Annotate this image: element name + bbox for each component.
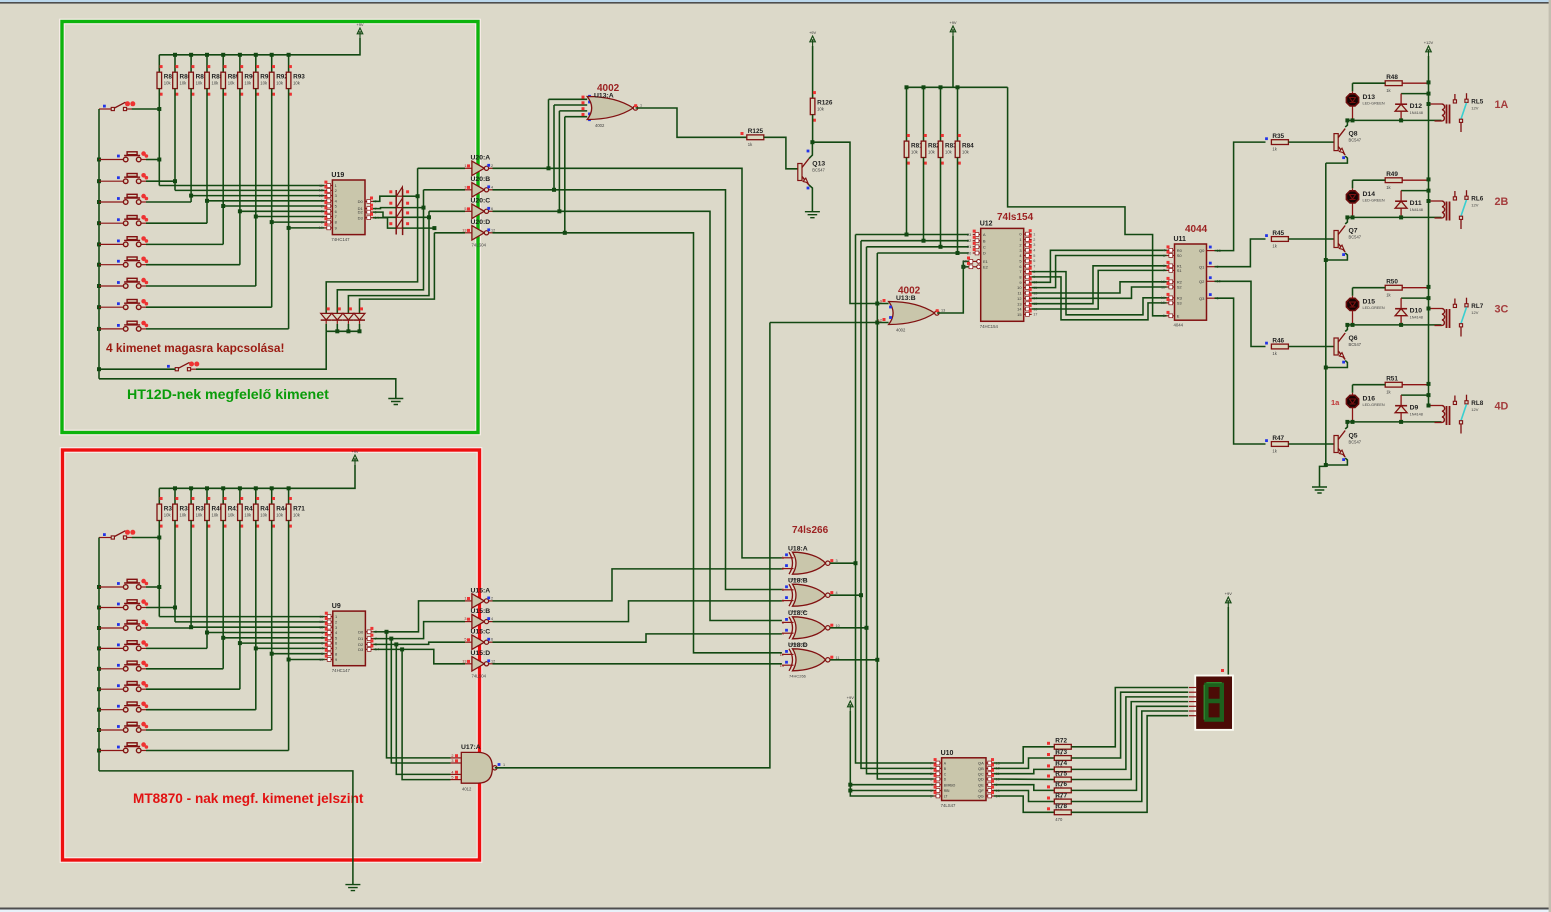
wire node row bbox=[1347, 324, 1441, 326]
svg-text:S0: S0 bbox=[1177, 253, 1183, 258]
junction bbox=[97, 646, 101, 650]
svg-text:6: 6 bbox=[1019, 264, 1021, 269]
wire to display pin bbox=[1071, 716, 1188, 813]
junction bbox=[552, 188, 556, 192]
wire U13:B out to U12 E1 bbox=[937, 261, 969, 313]
power +9V (R81 rail) bbox=[950, 26, 956, 36]
button SW5 (green box row 5) bbox=[99, 236, 148, 247]
resistor R46 bbox=[1271, 344, 1288, 349]
wire resistor top lead bbox=[906, 87, 908, 141]
wire resistor column bbox=[222, 521, 224, 669]
diode (lower group) bbox=[354, 313, 365, 320]
wire Q13 emitter bbox=[809, 185, 812, 212]
svg-text:A: A bbox=[983, 232, 986, 237]
svg-text:1N4148: 1N4148 bbox=[1410, 208, 1423, 212]
junction bbox=[854, 561, 858, 565]
wire resistor column bbox=[158, 89, 160, 186]
wire resistor top lead bbox=[271, 488, 273, 504]
wire to U19 pin bbox=[159, 185, 324, 187]
svg-text:U20:D: U20:D bbox=[471, 219, 491, 226]
svg-text:D2: D2 bbox=[358, 210, 364, 215]
wire U18 input stub bbox=[782, 557, 794, 559]
wire diode out bbox=[403, 216, 429, 218]
wire Q13 node to U13:B in1 bbox=[812, 142, 888, 303]
wire U13:A input bbox=[565, 116, 587, 118]
wire to display pin bbox=[1071, 702, 1188, 780]
svg-text:RL8: RL8 bbox=[1471, 400, 1483, 407]
resistor R92 bbox=[269, 72, 274, 88]
wire LED top bbox=[1352, 180, 1354, 188]
svg-text:11: 11 bbox=[1017, 291, 1021, 296]
svg-text:U9: U9 bbox=[332, 603, 341, 610]
svg-text:LED-GREEN: LED-GREEN bbox=[1363, 198, 1385, 202]
wire resistor top lead bbox=[923, 87, 925, 141]
svg-text:4044: 4044 bbox=[1185, 224, 1208, 235]
svg-text:R74: R74 bbox=[1055, 760, 1067, 767]
button SW17 (red box row 8) bbox=[99, 722, 148, 733]
wire resistor column bbox=[174, 521, 176, 622]
button SW16 (red box row 7) bbox=[99, 702, 148, 713]
junction pin row bbox=[221, 636, 225, 640]
svg-text:5: 5 bbox=[464, 207, 466, 211]
svg-text:4: 4 bbox=[451, 770, 453, 774]
junction rail bbox=[1427, 296, 1431, 300]
wire to inverter input bbox=[434, 232, 465, 234]
button SW11 (red box row 2) bbox=[99, 599, 148, 610]
wire resistor top lead bbox=[288, 55, 290, 72]
junction bbox=[97, 367, 101, 371]
svg-text:74HC147: 74HC147 bbox=[331, 237, 350, 242]
button SW3 (green box row 3) bbox=[99, 194, 148, 205]
svg-text:5: 5 bbox=[464, 638, 466, 642]
svg-text:4: 4 bbox=[491, 185, 493, 189]
junction bbox=[1324, 463, 1328, 467]
svg-text:S1: S1 bbox=[1177, 268, 1183, 273]
wire diode out bbox=[403, 227, 435, 229]
svg-text:R73: R73 bbox=[1055, 749, 1067, 756]
svg-text:1: 1 bbox=[1019, 237, 1021, 242]
wire button to column bbox=[146, 264, 240, 266]
wire bbox=[1400, 191, 1402, 202]
svg-text:10k: 10k bbox=[911, 150, 919, 155]
svg-text:5: 5 bbox=[930, 789, 932, 793]
wire R126 to node bbox=[812, 115, 814, 143]
svg-text:2: 2 bbox=[335, 620, 337, 625]
svg-text:13: 13 bbox=[941, 309, 945, 313]
svg-text:13: 13 bbox=[462, 228, 466, 232]
wire U12 address row bbox=[856, 234, 969, 236]
svg-text:RL6: RL6 bbox=[1471, 196, 1483, 203]
wire to U9 pin bbox=[175, 621, 325, 623]
svg-text:R77: R77 bbox=[1055, 792, 1067, 799]
wire U13:A input bbox=[559, 110, 587, 112]
diode D11 bbox=[1395, 200, 1407, 202]
wire D2 to diode bbox=[373, 212, 396, 217]
wire resistor top lead bbox=[206, 55, 208, 72]
svg-text:Q5: Q5 bbox=[1349, 433, 1358, 440]
svg-text:D: D bbox=[983, 251, 986, 256]
wire resistor to U12 row bbox=[940, 158, 942, 247]
svg-text:6: 6 bbox=[782, 599, 784, 603]
wire inverter out to U18 in1 bbox=[493, 190, 782, 590]
junction pin row bbox=[287, 658, 291, 662]
svg-text:8: 8 bbox=[335, 651, 337, 656]
svg-text:12: 12 bbox=[1161, 280, 1165, 284]
wire button to column bbox=[146, 328, 289, 330]
wire resistor column bbox=[190, 89, 192, 202]
svg-text:1: 1 bbox=[464, 596, 466, 600]
svg-text:16: 16 bbox=[1161, 296, 1165, 300]
resistor R83 bbox=[938, 141, 943, 157]
wire to U19 pin bbox=[175, 189, 324, 191]
svg-text:10k: 10k bbox=[212, 81, 220, 86]
svg-text:R47: R47 bbox=[1272, 435, 1284, 442]
wire R to rail bbox=[1402, 179, 1428, 181]
svg-text:2: 2 bbox=[491, 164, 493, 168]
junction rail bbox=[205, 53, 209, 57]
wire resistor top lead bbox=[271, 55, 273, 72]
junction bbox=[97, 242, 101, 246]
svg-text:R50: R50 bbox=[1386, 279, 1398, 286]
7-segment digit 8 bbox=[1206, 685, 1221, 720]
resistor R42 bbox=[238, 504, 243, 520]
wire resistor column bbox=[239, 89, 241, 265]
wire button to column bbox=[146, 688, 240, 690]
wire R to rail bbox=[1402, 82, 1428, 84]
svg-text:11: 11 bbox=[319, 615, 323, 619]
inverter U15:D bbox=[465, 657, 493, 671]
junction pin row bbox=[189, 625, 193, 629]
wire button to column bbox=[146, 709, 256, 711]
svg-text:10k: 10k bbox=[164, 81, 172, 86]
wire resistor top lead bbox=[957, 87, 959, 141]
svg-text:74LS47: 74LS47 bbox=[941, 803, 956, 808]
button SW15 (red box row 6) bbox=[99, 681, 148, 692]
svg-text:RBI: RBI bbox=[944, 789, 950, 793]
wire resistor top lead bbox=[158, 488, 160, 504]
wire U15 out to U18 in2 bbox=[493, 634, 782, 642]
svg-text:9: 9 bbox=[1019, 280, 1021, 285]
svg-text:4044: 4044 bbox=[1174, 323, 1184, 328]
resistor R45 bbox=[1271, 237, 1288, 242]
resistor R125 bbox=[747, 135, 764, 140]
wire resistor top lead bbox=[288, 488, 290, 504]
svg-text:22: 22 bbox=[967, 239, 971, 243]
svg-text:6: 6 bbox=[491, 638, 493, 642]
junction rail bbox=[1427, 177, 1431, 181]
svg-text:9: 9 bbox=[880, 300, 882, 304]
wire button to column bbox=[146, 180, 175, 182]
svg-text:10k: 10k bbox=[164, 513, 172, 518]
wire to U19 pin bbox=[191, 195, 324, 197]
svg-text:4D: 4D bbox=[1495, 401, 1509, 413]
svg-text:LED-GREEN: LED-GREEN bbox=[1363, 403, 1385, 407]
svg-text:5: 5 bbox=[321, 220, 323, 224]
wire to U15 input bbox=[391, 622, 465, 639]
svg-text:5: 5 bbox=[335, 635, 337, 640]
junction bbox=[1345, 118, 1349, 122]
wire resistor top lead bbox=[174, 488, 176, 504]
svg-text:13: 13 bbox=[319, 626, 323, 630]
junction bbox=[922, 239, 926, 243]
svg-text:1N4148: 1N4148 bbox=[1410, 111, 1423, 115]
button SW14 (red box row 5) bbox=[99, 661, 148, 671]
power +9V (U10) bbox=[848, 701, 854, 711]
wire resistor top lead bbox=[239, 488, 241, 504]
wire bbox=[99, 368, 175, 370]
wire resistor top lead bbox=[158, 55, 160, 72]
svg-text:74LS04: 74LS04 bbox=[472, 673, 487, 678]
svg-text:2B: 2B bbox=[1495, 196, 1509, 208]
svg-text:+9V: +9V bbox=[847, 695, 855, 700]
XNOR gate U18:B bbox=[793, 584, 826, 606]
wire resistor top lead bbox=[940, 87, 942, 141]
wire to lower diode bbox=[337, 190, 423, 314]
wire resistor column bbox=[239, 521, 241, 690]
svg-text:Q7: Q7 bbox=[1349, 228, 1358, 235]
junction button row bbox=[173, 179, 177, 183]
wire U13:A out to R125 bbox=[636, 108, 747, 137]
wire button to column bbox=[146, 159, 159, 161]
wire button to column bbox=[146, 607, 175, 609]
wire resistor to U12 row bbox=[957, 158, 959, 254]
wire base bbox=[1288, 238, 1334, 240]
svg-text:6: 6 bbox=[335, 641, 337, 646]
inverter U15:A bbox=[465, 594, 493, 608]
switch SW (red box top) bbox=[99, 530, 135, 539]
svg-text:6: 6 bbox=[491, 207, 493, 211]
wire U17 input stub bbox=[451, 773, 462, 775]
svg-text:13: 13 bbox=[319, 194, 323, 198]
wire lower diode common bbox=[326, 330, 359, 332]
wire +9V down bbox=[952, 36, 954, 87]
wire Q3 to R47 bbox=[1215, 298, 1266, 444]
wire base bbox=[1288, 443, 1334, 445]
wire collector bbox=[1345, 325, 1347, 332]
svg-text:B: B bbox=[983, 238, 986, 243]
resistor R41 bbox=[221, 504, 226, 520]
junction pin row bbox=[270, 220, 274, 224]
junction rail bbox=[1427, 393, 1431, 397]
svg-text:7: 7 bbox=[1033, 265, 1035, 269]
svg-text:9: 9 bbox=[335, 226, 337, 231]
junction bbox=[563, 231, 567, 235]
wire base bbox=[1288, 141, 1334, 143]
wire collector bbox=[1345, 120, 1347, 127]
wire resistor column bbox=[271, 89, 273, 308]
wire D0 to diode bbox=[373, 196, 396, 201]
wire to U19 pin bbox=[289, 227, 325, 229]
svg-text:15: 15 bbox=[1161, 301, 1165, 305]
wire to U15 input bbox=[396, 642, 465, 644]
svg-text:1A: 1A bbox=[1495, 99, 1509, 111]
junction rail bbox=[922, 85, 926, 89]
junction bbox=[97, 606, 101, 610]
junction bbox=[1351, 118, 1355, 122]
resistor R89 bbox=[221, 72, 226, 88]
resistor R91 bbox=[254, 72, 259, 88]
junction bbox=[1351, 420, 1355, 424]
wire to U19 pin bbox=[207, 200, 324, 202]
wire to display pin bbox=[1071, 697, 1188, 770]
svg-text:10: 10 bbox=[319, 226, 323, 230]
svg-text:BC547: BC547 bbox=[1349, 342, 1362, 347]
svg-text:10k: 10k bbox=[260, 81, 268, 86]
svg-text:74LS04: 74LS04 bbox=[472, 242, 487, 247]
resistor R75 bbox=[1054, 777, 1071, 782]
svg-text:11: 11 bbox=[1161, 285, 1165, 289]
wire resistor column bbox=[174, 89, 176, 191]
wire button to column bbox=[146, 647, 207, 649]
svg-text:QE: QE bbox=[978, 782, 984, 787]
junction bbox=[1399, 215, 1403, 219]
svg-text:23: 23 bbox=[967, 233, 971, 237]
svg-text:2: 2 bbox=[1033, 238, 1035, 242]
wire R to LED bbox=[1353, 82, 1386, 84]
wire bbox=[1400, 94, 1402, 105]
svg-text:LT: LT bbox=[944, 795, 948, 799]
svg-text:U15:D: U15:D bbox=[471, 650, 491, 657]
junction pin row bbox=[254, 215, 258, 219]
junction bbox=[400, 647, 404, 651]
resistor R48 bbox=[1385, 81, 1402, 86]
junction rail bbox=[1427, 285, 1431, 289]
junction rail bbox=[189, 53, 193, 57]
svg-text:3: 3 bbox=[321, 641, 323, 645]
wire diode bottom bbox=[1400, 111, 1402, 120]
svg-text:6: 6 bbox=[1163, 264, 1165, 268]
resistor R86 bbox=[173, 72, 178, 88]
svg-text:Q8: Q8 bbox=[1349, 131, 1358, 138]
svg-text:10k: 10k bbox=[180, 81, 188, 86]
svg-text:12: 12 bbox=[491, 228, 495, 232]
svg-text:13: 13 bbox=[462, 659, 466, 663]
svg-text:D15: D15 bbox=[1363, 298, 1376, 305]
wire QG to R78 bbox=[994, 796, 1054, 812]
diode D10 bbox=[1395, 308, 1407, 310]
svg-text:12: 12 bbox=[878, 319, 882, 323]
svg-text:15: 15 bbox=[1017, 312, 1021, 317]
svg-text:10k: 10k bbox=[196, 81, 204, 86]
wire emitter bbox=[1326, 253, 1348, 260]
junction bbox=[97, 728, 101, 732]
svg-text:7: 7 bbox=[1163, 269, 1165, 273]
svg-text:8: 8 bbox=[335, 220, 337, 225]
svg-text:4: 4 bbox=[1033, 249, 1035, 253]
wire resistor top lead bbox=[239, 55, 241, 72]
svg-text:2: 2 bbox=[930, 772, 932, 776]
transistor Q7 bbox=[1334, 226, 1345, 253]
junction rail bbox=[173, 486, 177, 490]
svg-text:R72: R72 bbox=[1055, 738, 1067, 745]
junction bbox=[97, 263, 101, 267]
svg-text:R125: R125 bbox=[748, 128, 764, 135]
inverter U20:D bbox=[465, 226, 493, 240]
power +12V bbox=[1426, 46, 1432, 56]
svg-text:U18:D: U18:D bbox=[788, 642, 808, 649]
wire address vertical bbox=[877, 253, 933, 779]
red highlight box (MT8870 section) bbox=[63, 450, 480, 860]
svg-text:74HC154: 74HC154 bbox=[980, 324, 999, 329]
junction bbox=[97, 708, 101, 712]
wire resistor top lead bbox=[255, 488, 257, 504]
button SW4 (green box row 4) bbox=[99, 215, 148, 226]
svg-text:5: 5 bbox=[1019, 259, 1021, 264]
wire button to column bbox=[146, 306, 272, 308]
junction rail bbox=[956, 85, 960, 89]
junction bbox=[97, 626, 101, 630]
wire resistor column bbox=[271, 521, 273, 731]
svg-text:QB: QB bbox=[978, 766, 984, 771]
junction pin row bbox=[254, 646, 258, 650]
relay RL6 bbox=[1429, 190, 1469, 229]
inverter U20:B bbox=[465, 183, 493, 197]
button SW10 (red box row 1) bbox=[99, 579, 148, 590]
svg-text:12V: 12V bbox=[1471, 310, 1478, 315]
junction rail bbox=[1427, 382, 1431, 386]
svg-text:7: 7 bbox=[335, 214, 337, 219]
wire U18 input stub bbox=[782, 621, 794, 623]
wire QA to R72 bbox=[994, 747, 1054, 763]
wire Q13 collector bbox=[809, 142, 812, 158]
wire emitter bbox=[1326, 458, 1348, 465]
junction rail bbox=[270, 486, 274, 490]
svg-text:E: E bbox=[1177, 313, 1180, 318]
switch SW (green box top) bbox=[99, 101, 135, 110]
wire to ground (green box) bbox=[99, 379, 396, 399]
wire resistor column bbox=[158, 521, 160, 617]
chip U10 body bbox=[942, 758, 986, 801]
wire to U15 input bbox=[387, 601, 466, 632]
wire U18 input stub bbox=[782, 632, 794, 634]
wire to U19 pin bbox=[240, 210, 325, 212]
wire LED bottom bbox=[1352, 410, 1354, 422]
wire base bbox=[1288, 346, 1334, 348]
junction button row bbox=[157, 158, 161, 162]
svg-text:4: 4 bbox=[321, 647, 323, 651]
wire tap to U13:A bbox=[564, 117, 566, 233]
junction Q13 collector node bbox=[810, 140, 814, 144]
svg-text:+9V: +9V bbox=[356, 22, 364, 27]
wire emitter bbox=[1326, 156, 1348, 163]
diode (lower group) bbox=[343, 313, 354, 320]
resistor R84 bbox=[955, 141, 960, 157]
wire U12 to U11 bbox=[1032, 270, 1167, 309]
junction bbox=[875, 302, 879, 306]
junction pin row bbox=[287, 226, 291, 230]
wire bbox=[1400, 298, 1402, 309]
wire collector bbox=[1345, 217, 1347, 224]
resistor R50 bbox=[1385, 285, 1402, 290]
svg-text:10k: 10k bbox=[244, 81, 252, 86]
svg-text:R126: R126 bbox=[817, 100, 833, 107]
wire display common bbox=[1227, 607, 1229, 677]
svg-text:9: 9 bbox=[335, 657, 337, 662]
svg-text:1N4148: 1N4148 bbox=[1410, 413, 1423, 417]
wire U18 out bbox=[830, 659, 877, 661]
svg-text:5: 5 bbox=[782, 588, 784, 592]
junction bbox=[1399, 118, 1403, 122]
wire address vertical bbox=[861, 241, 934, 769]
wire resistor top lead bbox=[190, 488, 192, 504]
wire rail to U11 E bbox=[1008, 87, 1167, 315]
wire LED top bbox=[1352, 385, 1354, 393]
chip U11 body bbox=[1175, 244, 1207, 320]
resistor R38 bbox=[173, 504, 178, 520]
svg-text:2: 2 bbox=[451, 754, 453, 758]
wire U13:A input bbox=[554, 104, 587, 106]
wire U12 address row bbox=[877, 252, 968, 254]
